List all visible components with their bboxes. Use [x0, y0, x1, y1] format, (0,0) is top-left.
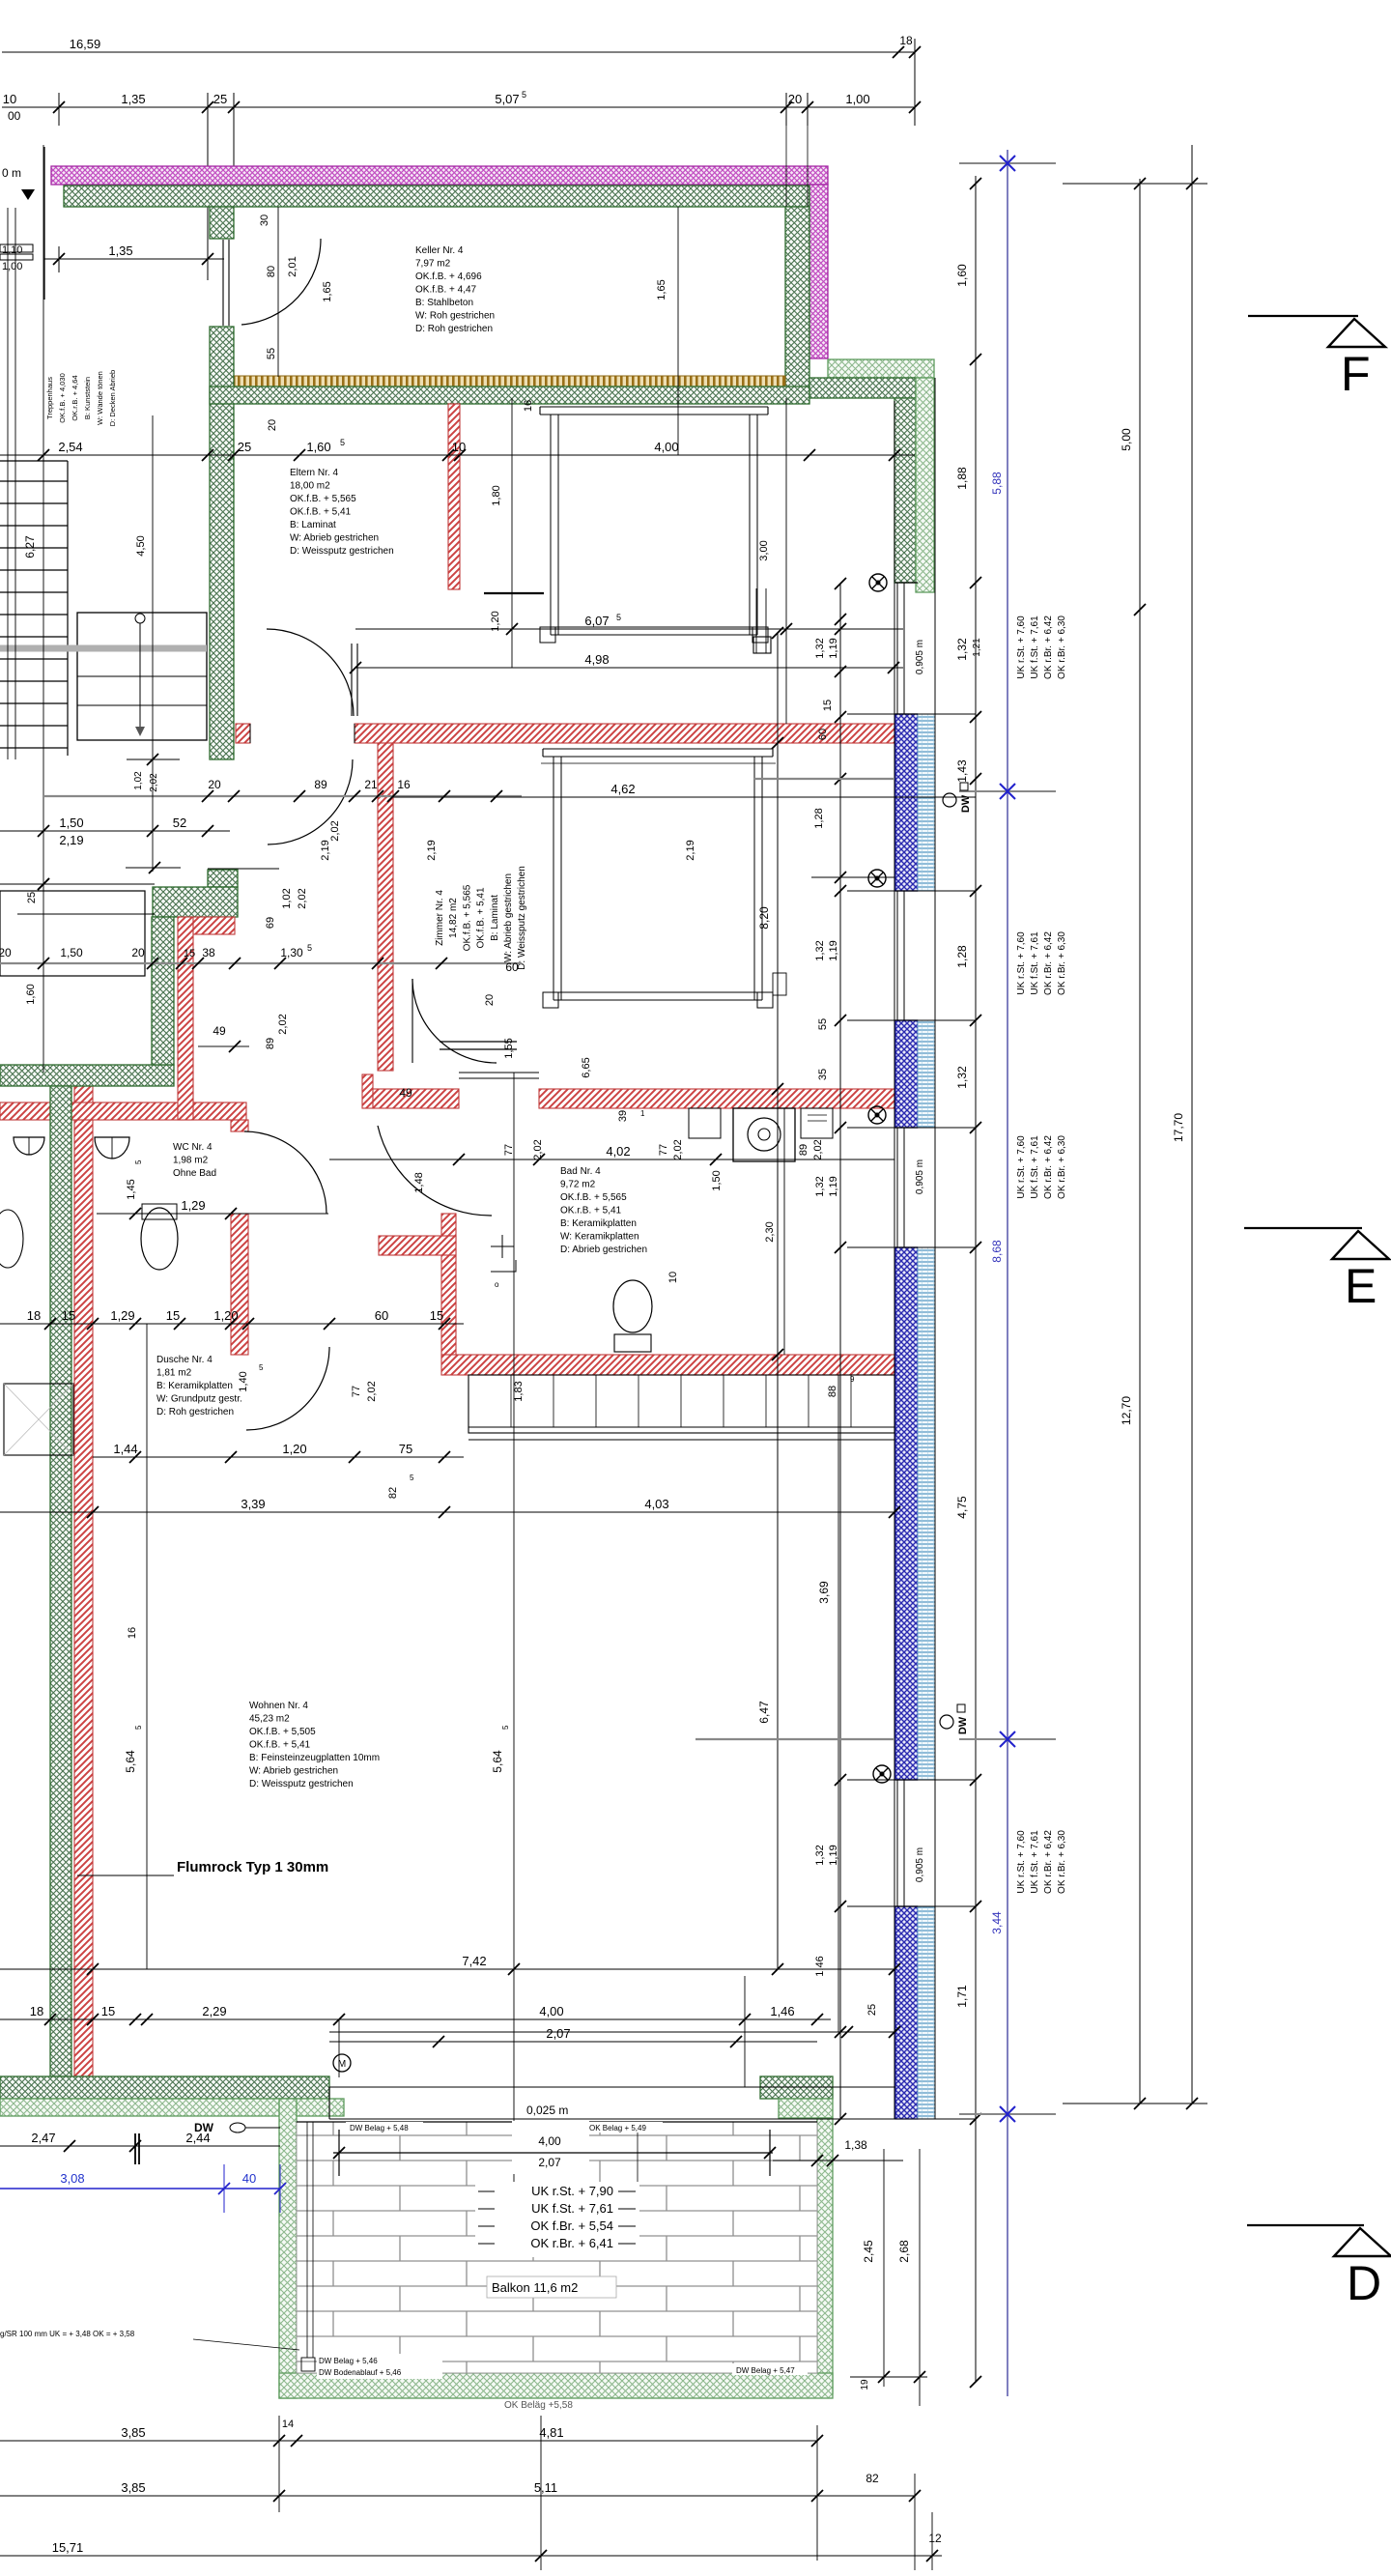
svg-text:4,00: 4,00 — [539, 2004, 563, 2018]
svg-text:4,98: 4,98 — [584, 652, 609, 667]
svg-text:3,08: 3,08 — [60, 2171, 84, 2186]
svg-text:2,07: 2,07 — [538, 2156, 561, 2169]
svg-text:38: 38 — [202, 946, 215, 959]
svg-text:W: Abrieb gestrichen: W: Abrieb gestrichen — [249, 1766, 338, 1777]
svg-text:0,905 m: 0,905 m — [915, 1847, 925, 1882]
svg-text:89: 89 — [798, 1144, 809, 1156]
svg-text:1,55: 1,55 — [503, 1038, 515, 1058]
svg-text:2,02: 2,02 — [366, 1381, 378, 1401]
svg-text:10: 10 — [3, 92, 16, 106]
svg-text:6,27: 6,27 — [23, 535, 37, 558]
svg-text:1,60: 1,60 — [955, 264, 969, 287]
svg-text:60: 60 — [817, 729, 829, 740]
svg-text:1,38: 1,38 — [844, 2138, 867, 2152]
svg-text:14: 14 — [282, 2419, 294, 2430]
svg-text:D: Decken Abrieb: D: Decken Abrieb — [108, 370, 117, 426]
svg-text:Zimmer Nr. 4: Zimmer Nr. 4 — [435, 890, 445, 946]
svg-text:5: 5 — [340, 438, 345, 447]
svg-text:D: Weissputz gestrichen: D: Weissputz gestrichen — [249, 1779, 354, 1789]
svg-text:1,19: 1,19 — [828, 1845, 839, 1865]
svg-text:49: 49 — [213, 1024, 226, 1038]
svg-text:2,02: 2,02 — [672, 1139, 684, 1159]
svg-text:OK r.Br. + 6,42: OK r.Br. + 6,42 — [1043, 1135, 1054, 1199]
svg-text:UK f.St. + 7,61: UK f.St. + 7,61 — [531, 2201, 613, 2216]
svg-text:5,07: 5,07 — [495, 92, 519, 106]
svg-text:1,60: 1,60 — [25, 984, 37, 1004]
svg-text:2,19: 2,19 — [685, 840, 696, 860]
svg-text:1,30: 1,30 — [280, 946, 303, 959]
svg-text:75: 75 — [399, 1442, 412, 1456]
svg-text:18: 18 — [27, 1308, 41, 1323]
svg-text:Balkon 11,6 m2: Balkon 11,6 m2 — [492, 2280, 578, 2295]
svg-text:21: 21 — [364, 778, 378, 791]
svg-text:1,32: 1,32 — [814, 940, 826, 960]
svg-text:D: Roh gestrichen: D: Roh gestrichen — [415, 324, 493, 334]
svg-text:2,02: 2,02 — [277, 1014, 289, 1034]
svg-text:4,75: 4,75 — [955, 1496, 969, 1519]
svg-text:17,70: 17,70 — [1172, 1113, 1185, 1142]
svg-text:10: 10 — [667, 1272, 679, 1283]
svg-text:80: 80 — [266, 266, 277, 277]
svg-text:12: 12 — [928, 2532, 942, 2545]
svg-text:OK r.Br. + 6,30: OK r.Br. + 6,30 — [1057, 1830, 1067, 1894]
svg-text:OK.r.B. + 4,64: OK.r.B. + 4,64 — [71, 375, 79, 420]
svg-text:10: 10 — [452, 440, 466, 454]
svg-text:1,48: 1,48 — [413, 1172, 425, 1192]
svg-text:Dusche Nr. 4: Dusche Nr. 4 — [156, 1355, 213, 1365]
svg-text:4,02: 4,02 — [606, 1144, 630, 1159]
svg-text:OK Beläg +5,58: OK Beläg +5,58 — [504, 2400, 573, 2411]
svg-text:DW: DW — [957, 1716, 969, 1734]
svg-text:OK.r.B. + 5,41: OK.r.B. + 5,41 — [560, 1206, 622, 1216]
svg-text:2,68: 2,68 — [897, 2240, 911, 2263]
svg-text:UK f.St. + 7,61: UK f.St. + 7,61 — [1030, 1135, 1040, 1199]
svg-text:5: 5 — [307, 943, 312, 953]
svg-text:1,28: 1,28 — [955, 945, 969, 968]
svg-text:77: 77 — [658, 1144, 669, 1156]
svg-text:B: Kunststein: B: Kunststein — [83, 377, 92, 419]
svg-text:OK r.Br. + 6,42: OK r.Br. + 6,42 — [1043, 1830, 1054, 1894]
svg-text:Eltern Nr. 4: Eltern Nr. 4 — [290, 468, 338, 478]
svg-text:1,43: 1,43 — [955, 759, 969, 783]
svg-text:3,00: 3,00 — [758, 540, 770, 560]
svg-text:8,68: 8,68 — [990, 1240, 1004, 1263]
svg-text:0,025 m: 0,025 m — [526, 2104, 568, 2117]
svg-text:F: F — [1341, 347, 1371, 401]
svg-text:D: Roh gestrichen: D: Roh gestrichen — [156, 1407, 234, 1417]
svg-text:UK f.St. + 7,61: UK f.St. + 7,61 — [1030, 615, 1040, 679]
svg-text:UK r.St. + 7,60: UK r.St. + 7,60 — [1016, 1135, 1027, 1199]
svg-text:OK f.Br. + 5,54: OK f.Br. + 5,54 — [530, 2218, 613, 2233]
svg-text:5: 5 — [410, 1474, 414, 1482]
svg-text:15: 15 — [101, 2004, 115, 2018]
svg-text:OK r.Br. + 6,30: OK r.Br. + 6,30 — [1057, 1135, 1067, 1199]
svg-text:Ohne Bad: Ohne Bad — [173, 1168, 216, 1179]
svg-text:2,19: 2,19 — [59, 833, 83, 847]
svg-text:E: E — [1345, 1259, 1377, 1313]
svg-text:5,64: 5,64 — [124, 1750, 137, 1773]
svg-text:1,02: 1,02 — [281, 888, 293, 908]
svg-text:OK r.Br. + 6,42: OK r.Br. + 6,42 — [1043, 931, 1054, 995]
svg-text:0 m: 0 m — [2, 166, 21, 180]
svg-text:5: 5 — [134, 1725, 143, 1730]
svg-text:OK.f.B. + 5,41: OK.f.B. + 5,41 — [249, 1740, 311, 1751]
svg-text:1,81 m2: 1,81 m2 — [156, 1368, 192, 1379]
svg-text:15,71: 15,71 — [52, 2540, 84, 2555]
svg-text:3,39: 3,39 — [241, 1497, 265, 1511]
svg-text:3,85: 3,85 — [121, 2480, 145, 2495]
svg-text:1,20: 1,20 — [213, 1308, 238, 1323]
svg-text:6,07: 6,07 — [584, 614, 609, 628]
svg-text:1,35: 1,35 — [121, 92, 145, 106]
svg-text:49: 49 — [399, 1086, 412, 1100]
svg-text:1,32: 1,32 — [814, 1845, 826, 1865]
svg-text:3,44: 3,44 — [990, 1911, 1004, 1934]
svg-text:20: 20 — [484, 994, 496, 1006]
svg-text:18: 18 — [30, 2004, 43, 2018]
svg-text:16: 16 — [523, 400, 534, 412]
svg-text:20: 20 — [267, 419, 278, 431]
svg-text:2,02: 2,02 — [329, 820, 341, 841]
svg-text:8,20: 8,20 — [757, 906, 771, 930]
svg-text:1,32: 1,32 — [814, 638, 826, 658]
svg-text:DW Bodenablauf + 5,46: DW Bodenablauf + 5,46 — [319, 2368, 402, 2377]
svg-text:1,35: 1,35 — [108, 243, 132, 258]
svg-text:1,40: 1,40 — [238, 1371, 249, 1391]
svg-text:4,03: 4,03 — [644, 1497, 668, 1511]
svg-text:2,30: 2,30 — [764, 1221, 776, 1242]
svg-text:3,85: 3,85 — [121, 2425, 145, 2440]
svg-text:1,88: 1,88 — [955, 467, 969, 490]
svg-text:1: 1 — [640, 1109, 645, 1118]
svg-text:OK r.Br. + 6,30: OK r.Br. + 6,30 — [1057, 615, 1067, 679]
svg-text:5: 5 — [616, 613, 621, 622]
svg-text:1,32: 1,32 — [814, 1176, 826, 1196]
svg-text:52: 52 — [173, 816, 186, 830]
svg-text:14,82 m2: 14,82 m2 — [448, 898, 459, 938]
svg-text:82: 82 — [387, 1487, 399, 1499]
svg-text:Treppenhaus: Treppenhaus — [45, 377, 54, 419]
svg-text:OK r.Br. + 6,42: OK r.Br. + 6,42 — [1043, 615, 1054, 679]
svg-text:5,00: 5,00 — [1120, 428, 1133, 451]
svg-text:7,97 m2: 7,97 m2 — [415, 259, 451, 270]
svg-text:D: D — [1347, 2256, 1381, 2310]
svg-text:OK.f.B. + 5,505: OK.f.B. + 5,505 — [249, 1727, 316, 1737]
svg-text:B: Laminat: B: Laminat — [290, 520, 336, 530]
svg-text:2,02: 2,02 — [812, 1139, 824, 1159]
svg-text:DW Belag + 5,47: DW Belag + 5,47 — [736, 2366, 795, 2375]
svg-text:o: o — [495, 1280, 499, 1289]
svg-text:25: 25 — [26, 892, 38, 903]
svg-text:B: Laminat: B: Laminat — [490, 895, 500, 941]
svg-text:5,11: 5,11 — [534, 2480, 557, 2495]
svg-text:1,71: 1,71 — [955, 1985, 969, 2008]
svg-text:20: 20 — [0, 946, 12, 959]
svg-text:DW Belag + 5,48: DW Belag + 5,48 — [350, 2124, 409, 2132]
svg-text:2,07: 2,07 — [546, 2026, 570, 2041]
svg-text:5,64: 5,64 — [491, 1750, 504, 1773]
svg-text:UK f.St. + 7,61: UK f.St. + 7,61 — [1030, 1830, 1040, 1894]
svg-text:1,50: 1,50 — [59, 816, 83, 830]
svg-text:OK.f.B. + 4,030: OK.f.B. + 4,030 — [58, 373, 67, 423]
svg-text:UK f.St. + 7,61: UK f.St. + 7,61 — [1030, 931, 1040, 995]
svg-text:1,19: 1,19 — [828, 638, 839, 658]
svg-text:1,80: 1,80 — [491, 485, 502, 505]
svg-text:5,88: 5,88 — [990, 472, 1004, 495]
svg-text:1,32: 1,32 — [955, 1066, 969, 1089]
svg-text:2,47: 2,47 — [31, 2131, 55, 2145]
svg-text:77: 77 — [351, 1386, 362, 1397]
svg-text:1,29: 1,29 — [181, 1198, 205, 1213]
svg-text:1,28: 1,28 — [813, 808, 825, 828]
svg-text:1,20: 1,20 — [490, 611, 501, 631]
svg-text:1,02: 1,02 — [133, 771, 144, 790]
svg-text:B: Keramikplatten: B: Keramikplatten — [156, 1381, 233, 1391]
svg-text:1,65: 1,65 — [322, 281, 333, 301]
svg-text:69: 69 — [265, 917, 276, 929]
svg-text:40: 40 — [242, 2171, 256, 2186]
svg-text:4,00: 4,00 — [538, 2134, 561, 2148]
svg-text:DW: DW — [960, 794, 972, 813]
svg-text:1,65: 1,65 — [656, 279, 667, 300]
svg-text:1,19: 1,19 — [828, 940, 839, 960]
svg-text:OK.f.B. + 4,47: OK.f.B. + 4,47 — [415, 285, 477, 296]
svg-text:OK.f.B. + 4,696: OK.f.B. + 4,696 — [415, 272, 482, 282]
svg-text:1,29: 1,29 — [110, 1308, 134, 1323]
svg-text:4,00: 4,00 — [654, 440, 678, 454]
svg-text:15: 15 — [822, 700, 834, 711]
svg-text:2,19: 2,19 — [320, 840, 331, 860]
svg-text:00: 00 — [8, 109, 21, 123]
svg-text:2,54: 2,54 — [58, 440, 82, 454]
svg-text:15: 15 — [166, 1308, 180, 1323]
svg-text:2,02: 2,02 — [149, 773, 159, 792]
svg-text:60: 60 — [375, 1308, 388, 1323]
svg-text:Flumrock Typ 1 30mm: Flumrock Typ 1 30mm — [177, 1859, 328, 1875]
svg-text:1,83: 1,83 — [513, 1381, 525, 1401]
svg-text:B: Stahlbeton: B: Stahlbeton — [415, 298, 473, 308]
svg-text:1,10: 1,10 — [2, 244, 22, 256]
svg-text:B: Feinsteinzeugplatten 10mm: B: Feinsteinzeugplatten 10mm — [249, 1753, 380, 1763]
svg-text:W: Wände tönen: W: Wände tönen — [96, 371, 104, 425]
svg-text:55: 55 — [817, 1018, 829, 1030]
svg-text:39: 39 — [617, 1110, 629, 1122]
svg-text:45,23 m2: 45,23 m2 — [249, 1714, 290, 1725]
svg-text:1,50: 1,50 — [711, 1170, 723, 1190]
svg-text:6,65: 6,65 — [581, 1057, 592, 1077]
svg-text:16: 16 — [397, 778, 411, 791]
svg-text:1,60: 1,60 — [306, 440, 330, 454]
svg-text:1,19: 1,19 — [828, 1176, 839, 1196]
svg-text:5: 5 — [134, 1159, 143, 1164]
svg-text:1,21: 1,21 — [972, 638, 982, 657]
svg-text:2,45: 2,45 — [862, 2240, 875, 2263]
svg-text:OK.f.B. + 5,41: OK.f.B. + 5,41 — [290, 507, 352, 518]
svg-text:30: 30 — [259, 215, 270, 226]
svg-text:1,98 m2: 1,98 m2 — [173, 1156, 209, 1166]
svg-text:25: 25 — [213, 92, 227, 106]
svg-text:1,46: 1,46 — [770, 2004, 794, 2018]
svg-text:77: 77 — [503, 1144, 515, 1156]
svg-text:0,905 m: 0,905 m — [915, 1159, 925, 1194]
svg-text:16: 16 — [127, 1627, 138, 1639]
svg-text:OK r.Br. + 6,41: OK r.Br. + 6,41 — [530, 2236, 613, 2250]
svg-text:OK.f.B. + 5,41: OK.f.B. + 5,41 — [476, 887, 487, 949]
svg-text:2,02: 2,02 — [297, 888, 308, 908]
svg-text:7,42: 7,42 — [462, 1954, 486, 1968]
svg-text:5: 5 — [259, 1363, 264, 1372]
svg-text:18,00 m2: 18,00 m2 — [290, 481, 330, 492]
svg-text:W: Abrieb gestrichen: W: Abrieb gestrichen — [503, 873, 514, 962]
svg-text:DW Belag + 5,46: DW Belag + 5,46 — [319, 2357, 378, 2365]
svg-text:3,69: 3,69 — [817, 1581, 831, 1604]
svg-text:OK Belag + 5,49: OK Belag + 5,49 — [589, 2124, 646, 2132]
svg-text:60: 60 — [505, 960, 519, 974]
svg-text:16,59: 16,59 — [70, 37, 101, 51]
svg-text:2,44: 2,44 — [185, 2131, 210, 2145]
svg-text:UK r.St. + 7,90: UK r.St. + 7,90 — [531, 2184, 613, 2198]
svg-text:D: Abrieb gestrichen: D: Abrieb gestrichen — [560, 1245, 647, 1255]
svg-text:0,905 m: 0,905 m — [915, 640, 925, 674]
svg-text:88: 88 — [827, 1386, 838, 1397]
svg-text:UK r.St. + 7,60: UK r.St. + 7,60 — [1016, 931, 1027, 995]
svg-text:19: 19 — [860, 2379, 870, 2390]
svg-text:15: 15 — [184, 948, 195, 959]
svg-text:25: 25 — [866, 2004, 878, 2016]
svg-text:2,19: 2,19 — [426, 840, 438, 860]
svg-text:89: 89 — [314, 778, 327, 791]
svg-text:1,00: 1,00 — [2, 261, 22, 272]
svg-text:W: Abrieb gestrichen: W: Abrieb gestrichen — [290, 533, 379, 544]
svg-text:20: 20 — [208, 778, 221, 791]
svg-text:2,01: 2,01 — [287, 256, 298, 276]
svg-text:D: Weissputz gestrichen: D: Weissputz gestrichen — [290, 546, 394, 557]
svg-text:12,70: 12,70 — [1120, 1396, 1133, 1425]
svg-text:Bad Nr. 4: Bad Nr. 4 — [560, 1166, 601, 1177]
svg-text:35: 35 — [817, 1069, 829, 1080]
svg-text:9,72 m2: 9,72 m2 — [560, 1180, 596, 1190]
svg-text:1,32: 1,32 — [955, 638, 969, 661]
svg-text:g/SR 100 mm UK = + 3,48 OK =: g/SR 100 mm UK = + 3,48 OK = + 3,58 — [0, 2330, 135, 2338]
svg-text:W: Keramikplatten: W: Keramikplatten — [560, 1232, 639, 1243]
svg-text:OK.f.B. + 5,565: OK.f.B. + 5,565 — [560, 1192, 627, 1203]
svg-text:4,50: 4,50 — [135, 535, 147, 556]
svg-text:1,00: 1,00 — [845, 92, 869, 106]
svg-text:1,20: 1,20 — [282, 1442, 306, 1456]
svg-text:2,29: 2,29 — [202, 2004, 226, 2018]
svg-text:W: Roh gestrichen: W: Roh gestrichen — [415, 311, 495, 322]
svg-text:4,62: 4,62 — [610, 782, 635, 796]
svg-text:OK.f.B. + 5,565: OK.f.B. + 5,565 — [290, 494, 356, 504]
svg-text:9: 9 — [850, 1375, 855, 1384]
svg-text:B: Keramikplatten: B: Keramikplatten — [560, 1218, 637, 1229]
svg-text:20: 20 — [131, 946, 145, 959]
svg-text:WC Nr. 4: WC Nr. 4 — [173, 1142, 213, 1153]
svg-text:55: 55 — [266, 348, 277, 359]
svg-text:2,02: 2,02 — [532, 1139, 544, 1159]
svg-text:1,50: 1,50 — [60, 946, 83, 959]
svg-text:15: 15 — [430, 1308, 443, 1323]
svg-text:D: Weissputz gestrichen: D: Weissputz gestrichen — [517, 866, 527, 970]
svg-text:82: 82 — [866, 2472, 879, 2485]
svg-text:1,45: 1,45 — [126, 1179, 137, 1199]
svg-text:6,47: 6,47 — [757, 1701, 771, 1724]
svg-text:18: 18 — [899, 34, 913, 47]
svg-text:UK r.St. + 7,60: UK r.St. + 7,60 — [1016, 615, 1027, 679]
svg-text:20: 20 — [788, 92, 802, 106]
svg-text:1,46: 1,46 — [814, 1956, 826, 1976]
svg-text:Wohnen Nr. 4: Wohnen Nr. 4 — [249, 1701, 308, 1711]
svg-text:W: Grundputz gestr.: W: Grundputz gestr. — [156, 1394, 242, 1405]
svg-text:Keller Nr. 4: Keller Nr. 4 — [415, 245, 464, 256]
svg-text:89: 89 — [265, 1038, 276, 1049]
svg-text:OK r.Br. + 6,30: OK r.Br. + 6,30 — [1057, 931, 1067, 995]
svg-text:1,44: 1,44 — [113, 1442, 137, 1456]
svg-text:5: 5 — [501, 1725, 510, 1730]
svg-text:OK.f.B. + 5,565: OK.f.B. + 5,565 — [462, 884, 472, 951]
svg-text:UK r.St. + 7,60: UK r.St. + 7,60 — [1016, 1830, 1027, 1894]
svg-text:25: 25 — [238, 440, 251, 454]
svg-text:15: 15 — [62, 1308, 75, 1323]
svg-text:5: 5 — [522, 90, 526, 100]
svg-text:4,81: 4,81 — [539, 2425, 563, 2440]
